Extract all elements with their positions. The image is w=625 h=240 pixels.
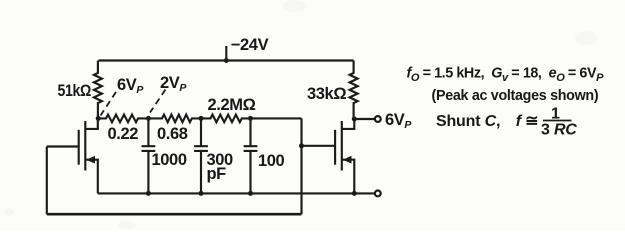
wire feedback bottom xyxy=(47,213,302,216)
svg-text:fO = 1.5 kHz, Gv = 18, eO =: fO = 1.5 kHz, Gv = 18, eO = 6VP xyxy=(407,66,605,85)
transistor Q1 source lead xyxy=(85,160,98,194)
svg-text:2.2MΩ: 2.2MΩ xyxy=(208,96,256,114)
terminal ground xyxy=(375,191,381,197)
wire D to feedback corner xyxy=(251,117,302,119)
node B xyxy=(146,116,151,121)
transistor Q2 gate bar xyxy=(334,130,336,165)
node A xyxy=(96,116,101,121)
wire gate lead Q2 xyxy=(302,145,336,147)
transistor Q2 source lead xyxy=(342,160,355,194)
transistor Q1 gate bar xyxy=(78,130,80,165)
node Q2 drain xyxy=(352,117,357,122)
node ground B xyxy=(146,191,151,196)
node D xyxy=(248,116,253,121)
resistor 2.2M and wire C-D xyxy=(201,115,251,123)
transistor Q2 drain lead xyxy=(342,119,355,129)
node Q2 source xyxy=(352,191,357,196)
wire -24V tick xyxy=(225,46,227,61)
svg-text:33kΩ: 33kΩ xyxy=(307,85,346,103)
transistor Q1 source arrow xyxy=(86,156,95,164)
label equation line 1 xyxy=(407,66,605,85)
svg-text:(Peak ac voltages shown): (Peak ac voltages shown) xyxy=(432,88,599,104)
transistor Q2 source arrow xyxy=(343,156,352,164)
wire gate lead Q1 xyxy=(47,145,79,147)
node ground D xyxy=(248,191,253,196)
resistor 33k xyxy=(350,61,358,120)
leader 6Vp to node A xyxy=(101,92,117,116)
svg-text:3 RC: 3 RC xyxy=(541,122,577,139)
wire feedback vertical xyxy=(300,118,302,214)
capacitor 300pF xyxy=(194,118,208,193)
fraction bar xyxy=(543,120,572,122)
svg-text:6VP: 6VP xyxy=(117,76,144,96)
svg-text:51kΩ: 51kΩ xyxy=(58,82,92,100)
node ground C xyxy=(199,191,204,196)
transistor Q2 channel bar xyxy=(341,121,343,171)
node C xyxy=(199,116,204,121)
capacitor 100pF xyxy=(244,118,258,193)
resistor 51k xyxy=(94,61,102,119)
svg-text:100: 100 xyxy=(258,152,285,170)
wire output lead xyxy=(354,118,374,120)
resistor 0.68 and wire B-C xyxy=(148,115,201,123)
svg-text:6VP: 6VP xyxy=(385,111,412,131)
svg-text:pF: pF xyxy=(207,165,227,183)
transistor Q1 drain lead xyxy=(85,118,98,128)
svg-text:Shunt C, f ≅: Shunt C, f ≅ xyxy=(436,113,538,130)
svg-text:−24V: −24V xyxy=(231,36,269,54)
wire top supply rail xyxy=(99,59,354,61)
node gate tap xyxy=(299,143,304,148)
wire feedback left vertical xyxy=(46,147,48,215)
svg-text:2VP: 2VP xyxy=(160,74,187,94)
capacitor 1000pF xyxy=(142,118,156,193)
wire ground rail xyxy=(98,192,375,194)
node supply junction xyxy=(224,58,229,63)
svg-text:1000: 1000 xyxy=(152,151,187,169)
wire signal line segment A-B with resistor 0.22 xyxy=(99,115,149,123)
transistor Q1 channel bar xyxy=(84,121,86,171)
label note line 3 xyxy=(436,106,577,139)
terminal output xyxy=(375,116,381,122)
leader 2Vp to node B xyxy=(150,90,166,113)
svg-text:0.22: 0.22 xyxy=(108,125,139,143)
svg-text:0.68: 0.68 xyxy=(157,125,188,143)
